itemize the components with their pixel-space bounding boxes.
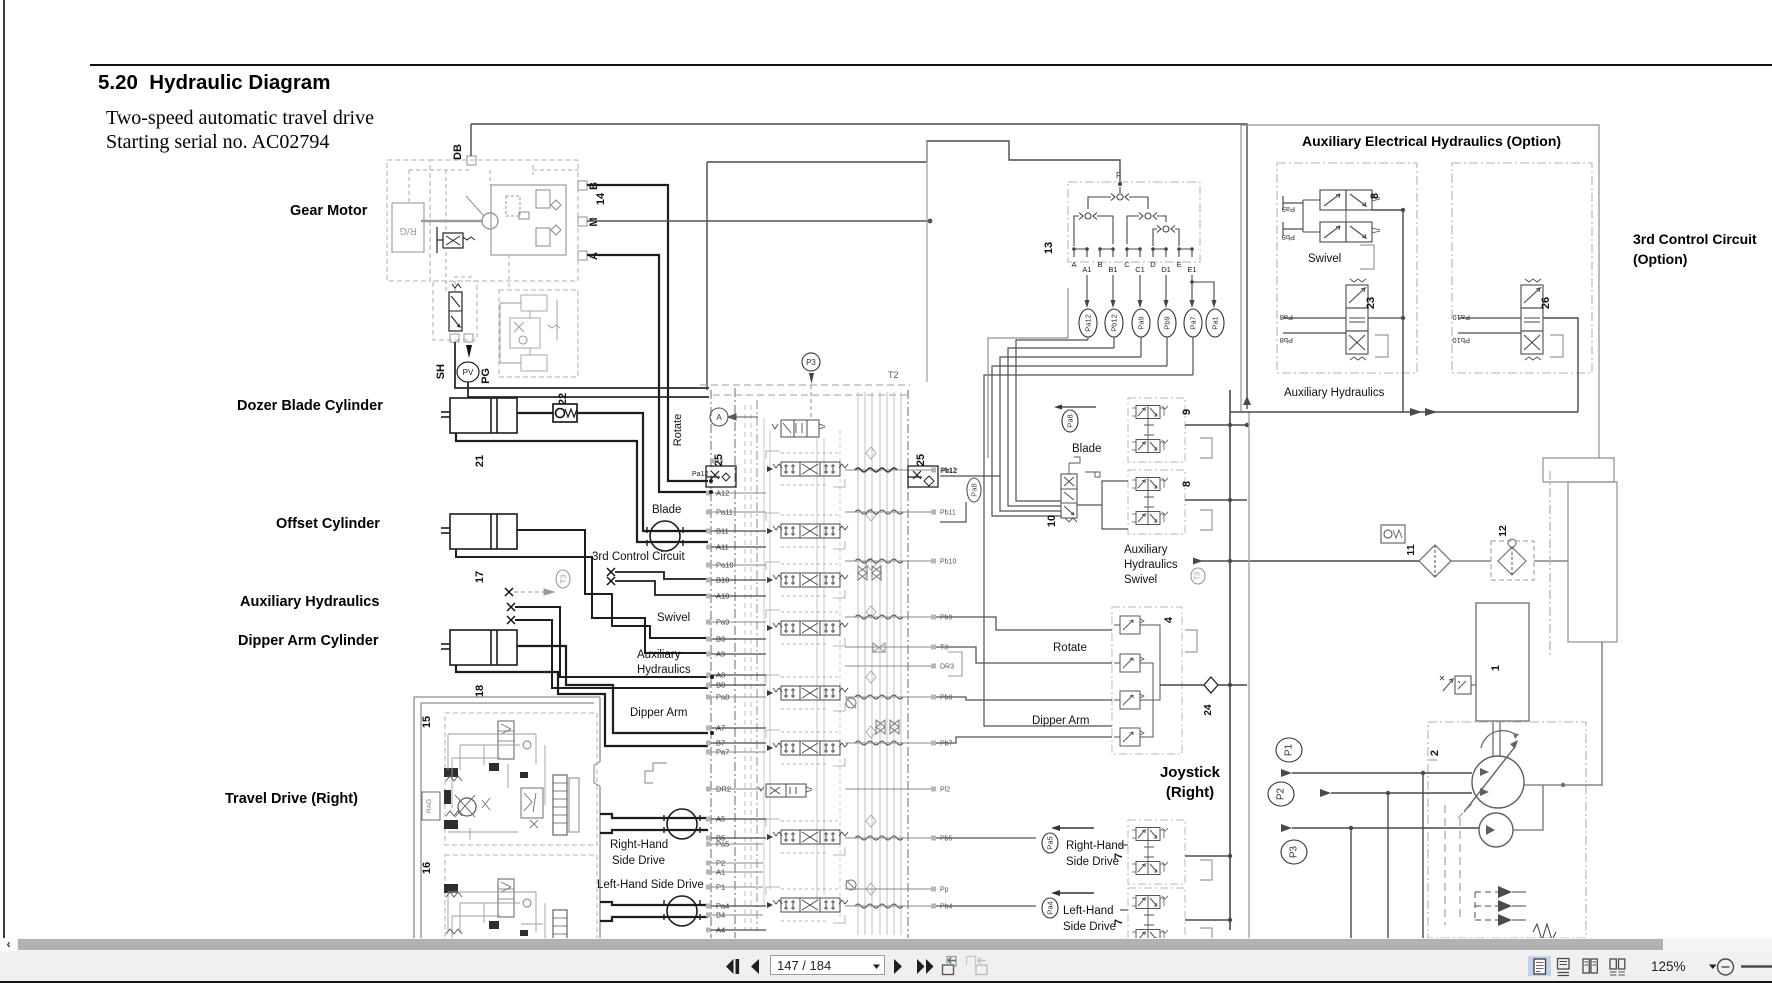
icon previous view [943, 957, 957, 975]
svg-text:Pa4: Pa4 [1046, 901, 1055, 914]
port DB [452, 144, 476, 165]
svg-text:Dipper Arm: Dipper Arm [630, 707, 688, 719]
joystick valve 9 blade [1128, 398, 1212, 462]
scrollbar thumb [18, 939, 1663, 950]
svg-text:B12: B12 [712, 458, 724, 465]
wire valve8 to junction column [1372, 208, 1405, 212]
svg-text:Pa7: Pa7 [1189, 316, 1198, 329]
valve block inter-row pilot texture [766, 447, 876, 923]
Pa8 pilot arrow blade joystick [1054, 405, 1096, 433]
shuttle valve tree [1074, 187, 1179, 246]
svg-text:A1: A1 [1082, 265, 1091, 274]
svg-text:Pb5: Pb5 [940, 836, 953, 843]
wire between filters [1451, 560, 1491, 562]
manifold port dots and stubs [1074, 249, 1192, 257]
gear motor valve body [491, 185, 566, 255]
svg-text:Pa1: Pa1 [1211, 316, 1220, 329]
svg-text:Side Drive: Side Drive [612, 855, 665, 867]
gear motor R/G gearbox [392, 203, 424, 252]
svg-text:Pa8: Pa8 [1066, 414, 1075, 427]
svg-text:Pb7: Pb7 [940, 741, 953, 748]
gear motor pilot lines [409, 165, 578, 292]
filter 11 diamond [1419, 545, 1451, 577]
svg-text:DB: DB [452, 144, 464, 160]
dash-dot enclosure swivel/23 [1277, 163, 1417, 373]
svg-text:Rotate: Rotate [1053, 642, 1087, 654]
svg-text:Gear Motor: Gear Motor [290, 203, 368, 219]
Pa5 pilot arrow [1042, 825, 1094, 853]
gear motor brake solenoid [437, 227, 475, 253]
check valve block 25 left [706, 466, 736, 487]
svg-text:8: 8 [1369, 193, 1381, 199]
drain stub DR2 [645, 763, 667, 783]
relief valve trio [1475, 886, 1556, 940]
svg-text:P2: P2 [1276, 787, 1287, 800]
svg-text:P3: P3 [1289, 845, 1300, 858]
valve block left port labels [716, 489, 734, 935]
svg-text:Pp: Pp [940, 887, 949, 894]
svg-text:Auxiliary: Auxiliary [637, 649, 681, 661]
wire dipper cylinder to A7 [517, 646, 708, 733]
svg-text:Pb8: Pb8 [1280, 336, 1293, 345]
page layout icon two pages continuous [1610, 959, 1625, 975]
svg-text:17: 17 [474, 571, 486, 583]
joystick valve 7 RH drive [1128, 820, 1212, 884]
svg-text:DR3: DR3 [940, 664, 954, 671]
displacement control solenoid [1440, 676, 1476, 694]
valve block boundary dash-dot lines [711, 388, 908, 938]
cylinder 17 offset [441, 514, 517, 549]
spool valve LH travel section [767, 898, 848, 912]
svg-text:Rotate: Rotate [672, 414, 684, 446]
svg-text:Left-Hand Side Drive: Left-Hand Side Drive [597, 879, 704, 891]
spool valve RH travel section [767, 830, 848, 844]
wire P2 [1320, 789, 1472, 940]
valve block right port labels [940, 468, 956, 911]
svg-text:Travel Drive (Right): Travel Drive (Right) [225, 791, 358, 807]
joystick valve 4 rotate/dipper [1112, 607, 1197, 754]
svg-text:Pb12: Pb12 [1110, 314, 1119, 332]
svg-text:Pb10: Pb10 [1452, 336, 1470, 345]
wire gear motor port A to valve block A12 [587, 255, 708, 492]
svg-text:A: A [716, 413, 722, 422]
wire offset cylinder to A9 [456, 549, 708, 653]
svg-text:(Right): (Right) [1166, 784, 1214, 801]
svg-text:Dipper Arm: Dipper Arm [1032, 715, 1090, 727]
dash-dot enclosure 26 [1452, 163, 1592, 373]
svg-text:Left-Hand: Left-Hand [1063, 905, 1114, 917]
spool valve blade section [767, 524, 848, 538]
valve block top bus T2/P3 [700, 385, 910, 395]
svg-text:Pl2: Pl2 [940, 787, 950, 794]
svg-text:(Option): (Option) [1633, 251, 1687, 267]
svg-text:T3: T3 [1195, 572, 1202, 580]
svg-text:Hydraulics: Hydraulics [1124, 559, 1178, 571]
main pump 2 [1464, 740, 1524, 812]
vertical wire in aux box [1402, 210, 1404, 412]
svg-text:PG: PG [480, 368, 492, 384]
top rule [90, 64, 1772, 66]
pump enclosure dash-dot [1428, 722, 1586, 938]
svg-text:23: 23 [1365, 297, 1377, 309]
svg-text:RAG: RAG [426, 799, 433, 813]
svg-text:Blade: Blade [652, 504, 681, 516]
svg-text:Swivel: Swivel [1308, 253, 1341, 265]
icon next view (disabled) [967, 957, 988, 975]
svg-text:3rd Control Circuit: 3rd Control Circuit [1633, 231, 1757, 247]
svg-text:13: 13 [1043, 242, 1055, 254]
cylinder 18 dipper arm [441, 630, 517, 665]
gear motor 14 outer dashed enclosure [387, 160, 578, 377]
nav first-page icon [726, 959, 739, 974]
nav prev icon [751, 959, 759, 974]
svg-text:Hydraulics: Hydraulics [637, 664, 691, 676]
filter 12 with bypass [1491, 539, 1534, 580]
gray pressure column x=1249 [1248, 412, 1250, 940]
pilot manifold 13 enclosure [1068, 182, 1200, 262]
nav last-page icon [917, 959, 934, 974]
P2 circle [1268, 782, 1294, 806]
svg-text:Pb10: Pb10 [940, 559, 956, 566]
svg-text:E: E [1176, 260, 1181, 269]
swivel joint circle on RH drive lines [664, 809, 700, 839]
svg-text:Pa5: Pa5 [1046, 836, 1055, 849]
svg-text:14: 14 [595, 192, 607, 205]
zoom out button [1718, 959, 1734, 975]
port A [578, 251, 600, 260]
svg-text:Pb9: Pb9 [940, 615, 953, 622]
svg-text:T3: T3 [940, 645, 948, 652]
svg-text:18: 18 [474, 685, 486, 697]
wire SH feed to valve block [455, 342, 709, 388]
wire P3 [1281, 824, 1479, 940]
svg-text:1: 1 [1490, 665, 1502, 671]
wire LH side drive A4 [600, 917, 708, 921]
svg-text:Auxiliary Hydraulics: Auxiliary Hydraulics [240, 594, 379, 610]
tank stub swivel [1360, 245, 1374, 269]
svg-text:Pb9: Pb9 [1163, 316, 1172, 329]
svg-text:Dozer Blade Cylinder: Dozer Blade Cylinder [237, 398, 383, 414]
svg-text:24: 24 [1203, 704, 1214, 716]
svg-text:Auxiliary Hydraulics: Auxiliary Hydraulics [1284, 387, 1385, 399]
wavy crossing bumps on B12 line [855, 468, 897, 472]
port M [578, 217, 600, 227]
page box caret [873, 965, 880, 970]
svg-text:Auxiliary Electrical Hydraulic: Auxiliary Electrical Hydraulics (Option) [1302, 133, 1561, 149]
rotate section pilot valve [772, 420, 825, 437]
wire dipper cylinder to B7 [456, 665, 708, 746]
top bus wire to auxiliary electrical box [471, 124, 1247, 409]
svg-text:15: 15 [421, 716, 433, 728]
svg-text:Offset Cylinder: Offset Cylinder [276, 516, 380, 532]
wire filter 12 to tank [1534, 560, 1568, 562]
pilot signal ellipses Pa12 Pb12 Pa9 Pb9 Pa7 Pa1 [1079, 309, 1097, 337]
valve block internal row connections [711, 470, 931, 930]
auxiliary electrical hydraulics outer box [1241, 125, 1614, 482]
anticavitation bowtie valves [846, 566, 899, 890]
proportional valve 26 [1521, 279, 1543, 360]
drain stub DR3 right [948, 652, 962, 676]
3rd control circuit capped lines [607, 568, 708, 595]
tank stub 26 [1550, 335, 1563, 357]
pilot staircase bundle from manifold ellipses [940, 337, 1193, 726]
svg-text:C: C [1124, 260, 1130, 269]
svg-text:R/G: R/G [399, 225, 417, 236]
wires valve block ports to joystick 4 [936, 617, 1112, 743]
solenoid valve 10 [1061, 457, 1080, 522]
svg-text:D1: D1 [1161, 265, 1171, 274]
wire gear motor port B to valve block B12 [587, 185, 708, 481]
svg-text:F: F [1116, 171, 1121, 180]
travel motor 16 [421, 855, 597, 940]
proportional valve 23 [1346, 279, 1368, 360]
svg-text:P3: P3 [806, 358, 816, 367]
svg-text:11: 11 [1405, 544, 1417, 555]
svg-text:E1: E1 [1187, 265, 1196, 274]
section title [98, 71, 330, 95]
zoom caret [1709, 965, 1717, 970]
svg-text:Auxiliary: Auxiliary [1124, 544, 1168, 556]
tank stub 23 [1375, 335, 1388, 357]
svg-text:Right-Hand: Right-Hand [610, 839, 668, 851]
svg-text:M: M [588, 217, 600, 226]
svg-text:9: 9 [1181, 409, 1193, 415]
pilot feed wire to manifold node F [707, 161, 927, 163]
page layout icon continuous [1558, 959, 1570, 976]
junction diamond 24 [1160, 677, 1247, 716]
svg-text:Pa9: Pa9 [1137, 316, 1146, 329]
travel motor 15 [421, 713, 597, 845]
check block 22 [553, 404, 577, 422]
joystick valve 7 LH drive [1128, 888, 1212, 952]
wire blade cylinder base side to A11 [456, 433, 708, 542]
wire 26 down to output [1543, 318, 1578, 412]
page layout icon single (active) [1528, 956, 1551, 976]
engine block 1 [1476, 603, 1529, 721]
svg-text:Pa12: Pa12 [1084, 314, 1093, 332]
svg-text:T3: T3 [559, 575, 568, 584]
Pa8 pilot ellipse near valve block [967, 478, 981, 502]
svg-text:3rd Control Circuit: 3rd Control Circuit [592, 551, 685, 563]
check valve block 25 right [908, 466, 938, 487]
svg-text:25: 25 [915, 454, 927, 466]
pilot lines manifold to joysticks [988, 288, 1068, 458]
port SH [435, 334, 459, 379]
svg-text:Right-Hand: Right-Hand [1066, 840, 1124, 852]
wires solenoid 10 to joystick 8 [1077, 472, 1128, 529]
cylinder 21 dozer blade [441, 398, 517, 433]
svg-text:A: A [1071, 260, 1076, 269]
wires to joystick 7 clusters [936, 838, 1128, 910]
svg-text:16: 16 [421, 862, 433, 874]
svg-text:21: 21 [474, 455, 486, 467]
wire T2 column [926, 141, 928, 382]
left page border [3, 0, 5, 938]
svg-text:Joystick: Joystick [1160, 764, 1221, 781]
bowtie valve on T3 line [873, 643, 885, 652]
Pa4 pilot arrow [1042, 890, 1094, 918]
manifold port labels [1071, 260, 1196, 274]
spool valve swivel section [767, 621, 848, 635]
svg-text:B: B [1097, 260, 1102, 269]
output wire with arrows [1230, 396, 1578, 416]
subtitle [106, 106, 374, 154]
junction column wire x=1230 [1229, 390, 1231, 930]
svg-text:8: 8 [1181, 481, 1193, 487]
wire blade cylinder rod side to B11 [517, 412, 553, 414]
svg-text:Dipper Arm Cylinder: Dipper Arm Cylinder [238, 633, 379, 649]
wire RH side drive A5 [600, 814, 708, 818]
svg-text:Pa8: Pa8 [970, 483, 979, 496]
swivel joint circle on LH drive lines [664, 896, 700, 926]
svg-text:Pb9: Pb9 [1282, 233, 1295, 242]
svg-text:Pb8: Pb8 [940, 695, 953, 702]
svg-text:SH: SH [435, 364, 447, 379]
scrollbar left button [0, 938, 17, 951]
T3 return circle [1191, 568, 1205, 584]
suction wire from tank [1513, 642, 1602, 830]
wire offset cylinder to B9 [517, 530, 708, 638]
dashed drain lines pump area [1428, 760, 1472, 925]
svg-text:Blade: Blade [1072, 443, 1101, 455]
svg-text:C1: C1 [1135, 265, 1145, 274]
electric swivel valve 8 [1303, 190, 1380, 242]
wire RH side drive B5 [600, 830, 708, 833]
page number box [770, 955, 885, 975]
pump drive shaft [1481, 721, 1519, 757]
spool valve DR2 straight-travel section [758, 784, 812, 797]
node A rotate pilot circle [710, 408, 758, 426]
pilot pump 3 [1479, 813, 1513, 847]
zoom slider [1741, 965, 1772, 968]
wire 23 to junction [1368, 317, 1403, 319]
svg-text:Pa12: Pa12 [692, 471, 708, 478]
tank return wire with arrow [1193, 558, 1419, 565]
stub lines into swivel valve [1283, 196, 1303, 236]
wire LH side drive B4 [600, 902, 708, 905]
port PG with PV gauge [457, 334, 492, 384]
wire pilot column [706, 162, 708, 390]
travel drive housing [414, 697, 600, 940]
spool valve rotate section [767, 462, 848, 476]
joystick valve 8 aux swivel [1128, 470, 1212, 534]
svg-text:P1: P1 [1284, 743, 1295, 756]
svg-text:Side Drive: Side Drive [1063, 921, 1116, 933]
wire PV/PG feed to valve block [468, 382, 709, 397]
auxiliary hydraulics capped lines [505, 570, 708, 688]
zoom level text [1651, 959, 1686, 974]
gear motor drive shaft and motor circle [421, 196, 498, 229]
gear motor shift valve [449, 284, 462, 331]
svg-text:Swivel: Swivel [657, 612, 690, 624]
oil tank [1550, 471, 1617, 658]
svg-text:22: 22 [557, 393, 569, 405]
check valve bypass 11 [1381, 525, 1405, 543]
svg-text:4: 4 [1163, 616, 1175, 623]
svg-text:B1: B1 [1108, 265, 1117, 274]
wire joystick 9/8 to main junction column [1185, 425, 1247, 920]
P1 circle [1276, 738, 1302, 762]
svg-text:Pa9: Pa9 [1282, 205, 1295, 214]
P3 pilot source circle [802, 353, 820, 418]
nav next icon [894, 959, 902, 974]
svg-text:Pb4: Pb4 [940, 904, 953, 911]
junction dots on ports [709, 479, 714, 735]
svg-text:12: 12 [1497, 525, 1509, 537]
wires into valve 23 [1283, 318, 1346, 333]
P3 circle [1281, 840, 1307, 864]
svg-text:D: D [1150, 260, 1156, 269]
wires into valve 26 [1458, 318, 1521, 333]
svg-text:Swivel: Swivel [1124, 574, 1157, 586]
svg-text:26: 26 [1540, 297, 1552, 309]
page layout icon two pages [1583, 959, 1597, 973]
wire DB to top bus [470, 124, 472, 156]
svg-text:10: 10 [1046, 515, 1058, 527]
svg-text:Pb11: Pb11 [940, 510, 956, 517]
valve block port ticks [706, 468, 936, 933]
crossover bumps on rows [855, 510, 903, 908]
pilot output arrows into ellipses [1085, 275, 1217, 308]
svg-text:PV: PV [463, 368, 474, 377]
toolbar background [0, 951, 1772, 981]
swivel joint circle on blade lines [647, 521, 683, 551]
wire gear motor port M [587, 220, 929, 222]
wire P1 [1281, 769, 1472, 940]
svg-text:Side Drive: Side Drive [1066, 856, 1119, 868]
svg-text:T2: T2 [888, 370, 899, 380]
port B [578, 181, 600, 190]
spool valve dipper arm section [767, 741, 848, 755]
spool valve 3rd control section [767, 573, 848, 587]
valve block internal bus lines [745, 392, 901, 935]
spool valve auxiliary section [767, 686, 848, 700]
svg-text:2: 2 [1429, 750, 1441, 756]
gear motor speed-select valves [500, 295, 560, 371]
svg-text:Pb12: Pb12 [941, 468, 957, 475]
